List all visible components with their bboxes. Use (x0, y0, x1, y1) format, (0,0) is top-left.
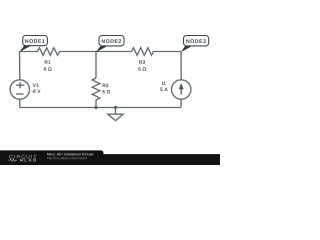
value V1 -6 V (32, 89, 41, 93)
node NODE1 (19, 36, 47, 53)
value R2 6 ohm (102, 90, 110, 94)
value R1 6 ohm (44, 67, 52, 71)
CircuitLab logo LAB wordmark (25, 158, 36, 161)
resistor R2 (92, 78, 100, 100)
wire: top rail R3 to NODE3 (154, 51, 182, 53)
wire: left branch NODE1 down to V1 (19, 52, 21, 80)
junction dot at R2 bottom (95, 106, 98, 109)
wire: R2 to bottom rail (95, 100, 97, 108)
value I1 5 A (160, 88, 167, 91)
node NODE3 (181, 36, 209, 53)
resistor R3 (132, 48, 154, 56)
footer bar (0, 154, 220, 165)
CircuitLab logo CIRCUIT wordmark (9, 155, 36, 159)
wire: top rail NODE2 to R3 (96, 51, 132, 53)
wire: middle branch NODE2 down to R2 (95, 52, 97, 79)
label I1 (162, 82, 166, 85)
wire: top rail R1 to NODE2 (60, 51, 97, 53)
label R3 (139, 60, 145, 64)
resistor R1 (38, 48, 60, 56)
wire: right branch NODE3 down to I1 (180, 52, 182, 80)
CircuitLab logo resistor zigzag (8, 159, 17, 162)
junction dot at ground tap (114, 106, 117, 109)
value R3 6 ohm (138, 67, 146, 71)
footer url text (47, 157, 87, 160)
CircuitLab logo diode (20, 159, 23, 162)
label V1 (33, 83, 39, 86)
node NODE2 (96, 36, 124, 53)
label R2 (103, 84, 109, 87)
wire: V1 to bottom rail (19, 99, 21, 107)
wire: I1 to bottom rail (180, 99, 182, 107)
wire: top rail NODE1 to R1 (20, 51, 38, 53)
wire: bottom rail (20, 107, 182, 109)
voltage source V1 (10, 80, 29, 99)
ground (108, 108, 123, 121)
footer content block (0, 150, 104, 165)
current source I1 (172, 80, 191, 99)
footer title text (47, 153, 93, 156)
label R1 (45, 60, 51, 63)
